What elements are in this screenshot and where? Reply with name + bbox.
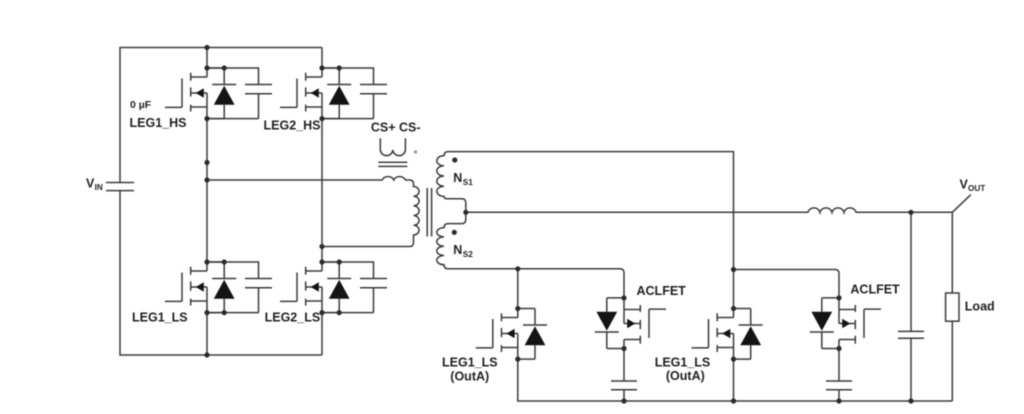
svg-text:LEG1_LS: LEG1_LS bbox=[442, 356, 498, 370]
svg-text:ACLFET: ACLFET bbox=[850, 283, 900, 297]
svg-text:Load: Load bbox=[965, 300, 995, 314]
svg-text:0 µF: 0 µF bbox=[130, 99, 152, 111]
svg-text:LEG1_HS: LEG1_HS bbox=[130, 116, 187, 130]
svg-text:(OutA): (OutA) bbox=[666, 369, 705, 383]
svg-text:IN: IN bbox=[95, 183, 103, 192]
svg-text:CS+ CS-: CS+ CS- bbox=[371, 121, 421, 135]
svg-text:S2: S2 bbox=[463, 250, 473, 259]
svg-text:ACLFET: ACLFET bbox=[637, 284, 687, 298]
svg-text:N: N bbox=[453, 243, 462, 257]
svg-text:(OutA): (OutA) bbox=[450, 370, 489, 384]
svg-text:LEG2_LS: LEG2_LS bbox=[265, 311, 321, 325]
svg-text:N: N bbox=[453, 171, 462, 185]
svg-text:LEG1_LS: LEG1_LS bbox=[655, 356, 711, 370]
svg-text:OUT: OUT bbox=[968, 184, 985, 193]
svg-text:LEG2_HS: LEG2_HS bbox=[264, 119, 321, 133]
svg-text:S1: S1 bbox=[463, 178, 473, 187]
svg-text:LEG1_LS: LEG1_LS bbox=[132, 311, 188, 325]
